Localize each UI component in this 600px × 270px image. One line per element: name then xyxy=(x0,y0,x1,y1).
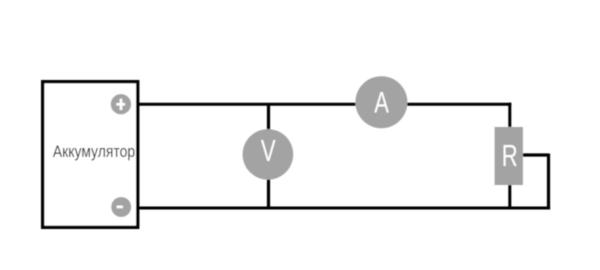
resistor R xyxy=(495,127,523,185)
battery label Аккумулятор xyxy=(53,143,135,162)
wire resistor top lead xyxy=(508,103,511,130)
wire top: battery + to resistor top xyxy=(138,103,511,106)
battery + terminal xyxy=(111,94,131,114)
battery box xyxy=(43,82,138,228)
wire resistor bottom lead xyxy=(508,182,511,208)
svg-text:V: V xyxy=(261,133,276,168)
svg-text:A: A xyxy=(374,85,389,119)
wire bottom: battery - to tap corner xyxy=(138,207,550,210)
wire tap vertical down xyxy=(547,154,550,210)
battery - terminal xyxy=(111,197,131,217)
svg-text:Аккумулятор: Аккумулятор xyxy=(53,143,135,162)
wire tap horizontal from R xyxy=(521,153,549,156)
ammeter A xyxy=(355,76,407,128)
wire voltmeter branch xyxy=(267,103,270,208)
voltmeter V xyxy=(243,129,294,180)
svg-text:R: R xyxy=(502,138,518,172)
